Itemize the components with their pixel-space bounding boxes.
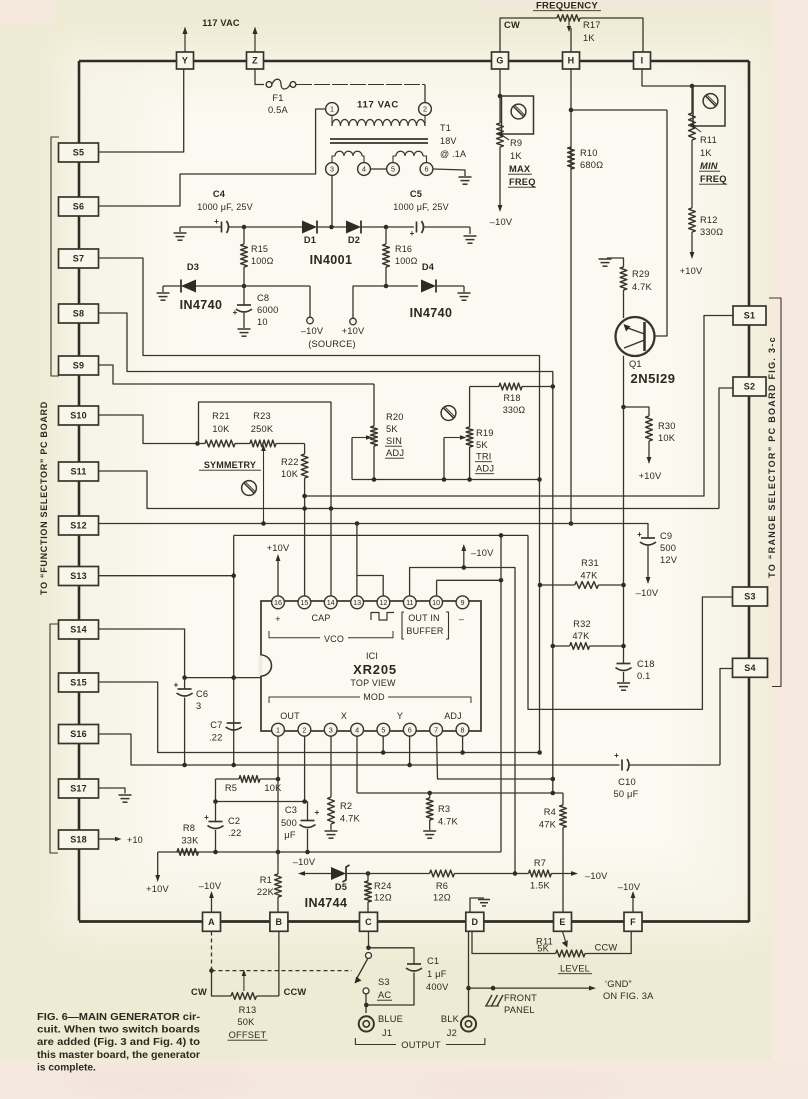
svg-text:R24: R24 bbox=[374, 881, 392, 891]
svg-text:C4: C4 bbox=[213, 189, 226, 199]
svg-text:BUFFER: BUFFER bbox=[406, 626, 444, 636]
svg-text:this master board, the generat: this master board, the generator bbox=[37, 1050, 200, 1061]
svg-text:R22: R22 bbox=[281, 457, 299, 467]
svg-text:B: B bbox=[276, 917, 283, 927]
svg-text:S9: S9 bbox=[73, 361, 84, 371]
svg-text:4.7K: 4.7K bbox=[632, 282, 653, 292]
svg-text:@ .1A: @ .1A bbox=[440, 149, 466, 159]
svg-text:S17: S17 bbox=[70, 784, 87, 794]
svg-text:12: 12 bbox=[379, 598, 387, 607]
svg-text:10K: 10K bbox=[212, 424, 230, 434]
svg-text:D3: D3 bbox=[187, 262, 199, 272]
svg-text:+10V: +10V bbox=[342, 326, 365, 336]
svg-text:OUT IN: OUT IN bbox=[408, 613, 440, 623]
svg-text:–: – bbox=[459, 614, 464, 624]
svg-text:OFFSET: OFFSET bbox=[229, 1030, 267, 1040]
svg-text:D2: D2 bbox=[348, 235, 360, 245]
svg-text:330Ω: 330Ω bbox=[503, 405, 526, 415]
svg-text:PANEL: PANEL bbox=[504, 1005, 535, 1015]
svg-text:R9: R9 bbox=[510, 138, 522, 148]
svg-text:+: + bbox=[275, 614, 280, 624]
svg-text:FIG. 6—MAIN GENERATOR cir-: FIG. 6—MAIN GENERATOR cir- bbox=[37, 1012, 200, 1023]
svg-text:4: 4 bbox=[355, 725, 359, 734]
svg-text:R3: R3 bbox=[438, 804, 450, 814]
svg-text:5K: 5K bbox=[537, 944, 549, 954]
svg-text:1000 μF, 25V: 1000 μF, 25V bbox=[393, 202, 449, 212]
svg-text:Y: Y bbox=[182, 56, 188, 66]
svg-text:50 μF: 50 μF bbox=[614, 789, 639, 799]
svg-text:12Ω: 12Ω bbox=[374, 893, 392, 903]
svg-text:+: + bbox=[174, 681, 179, 690]
svg-text:S1: S1 bbox=[744, 311, 755, 321]
svg-text:1: 1 bbox=[330, 105, 334, 114]
svg-text:1K: 1K bbox=[510, 151, 522, 161]
svg-text:S14: S14 bbox=[70, 625, 87, 635]
svg-text:.22: .22 bbox=[228, 828, 242, 838]
svg-text:C3: C3 bbox=[285, 805, 297, 815]
svg-text:4: 4 bbox=[362, 165, 366, 174]
svg-text:R5: R5 bbox=[225, 783, 237, 793]
svg-text:10: 10 bbox=[257, 317, 268, 327]
svg-text:T1: T1 bbox=[440, 123, 451, 133]
svg-text:12V: 12V bbox=[660, 555, 678, 565]
svg-text:4.7K: 4.7K bbox=[340, 814, 361, 824]
svg-text:R1: R1 bbox=[260, 875, 272, 885]
svg-text:+10V: +10V bbox=[146, 884, 169, 894]
svg-text:11: 11 bbox=[406, 598, 413, 607]
svg-text:MAX: MAX bbox=[509, 164, 531, 174]
svg-text:10K: 10K bbox=[658, 433, 676, 443]
svg-text:C6: C6 bbox=[196, 689, 208, 699]
svg-text:TRI: TRI bbox=[476, 452, 492, 462]
svg-text:BLK: BLK bbox=[441, 1014, 460, 1024]
svg-text:+: + bbox=[637, 530, 642, 539]
svg-text:10K: 10K bbox=[264, 783, 282, 793]
svg-text:.22: .22 bbox=[209, 733, 223, 743]
svg-text:R31: R31 bbox=[581, 558, 599, 568]
svg-text:47K: 47K bbox=[572, 631, 590, 641]
svg-text:ADJ: ADJ bbox=[476, 464, 494, 474]
svg-text:47K: 47K bbox=[580, 571, 598, 581]
svg-text:Q1: Q1 bbox=[629, 359, 642, 369]
svg-text:R16: R16 bbox=[395, 244, 412, 254]
svg-text:Z: Z bbox=[252, 56, 258, 66]
svg-text:3: 3 bbox=[196, 701, 201, 711]
svg-text:R23: R23 bbox=[253, 411, 271, 421]
svg-text:F: F bbox=[630, 917, 636, 927]
svg-text:S3: S3 bbox=[744, 592, 755, 602]
svg-text:0.5A: 0.5A bbox=[268, 105, 289, 115]
svg-text:TOP VIEW: TOP VIEW bbox=[350, 678, 396, 688]
svg-text:FRONT: FRONT bbox=[504, 993, 537, 1003]
svg-text:ON FIG. 3A: ON FIG. 3A bbox=[603, 991, 654, 1001]
svg-text:100Ω: 100Ω bbox=[251, 256, 274, 266]
svg-text:–10V: –10V bbox=[636, 588, 659, 598]
svg-text:LEVEL: LEVEL bbox=[560, 964, 590, 974]
svg-text:X: X bbox=[341, 711, 347, 721]
svg-text:+: + bbox=[214, 217, 219, 226]
svg-text:R32: R32 bbox=[573, 619, 591, 629]
svg-text:8: 8 bbox=[461, 725, 465, 734]
svg-text:R4: R4 bbox=[544, 807, 556, 817]
svg-text:22K: 22K bbox=[257, 887, 275, 897]
svg-text:R17: R17 bbox=[583, 20, 601, 30]
svg-text:SIN: SIN bbox=[386, 436, 402, 446]
svg-text:S5: S5 bbox=[73, 148, 84, 158]
svg-text:+10: +10 bbox=[127, 835, 143, 845]
svg-text:ADJ: ADJ bbox=[386, 448, 404, 458]
svg-text:5K: 5K bbox=[386, 424, 398, 434]
svg-text:117 VAC: 117 VAC bbox=[202, 18, 240, 28]
svg-text:E: E bbox=[559, 917, 565, 927]
svg-text:S8: S8 bbox=[73, 309, 84, 319]
svg-text:R29: R29 bbox=[632, 269, 650, 279]
svg-text:C7: C7 bbox=[210, 720, 222, 730]
svg-text:9: 9 bbox=[461, 598, 465, 607]
svg-text:R13: R13 bbox=[239, 1005, 257, 1015]
svg-text:–10V: –10V bbox=[618, 882, 641, 892]
svg-text:CW: CW bbox=[504, 20, 520, 30]
svg-text:MOD: MOD bbox=[363, 692, 385, 702]
svg-text:400V: 400V bbox=[426, 982, 449, 992]
svg-text:2: 2 bbox=[302, 725, 306, 734]
svg-text:μF: μF bbox=[284, 830, 296, 840]
svg-text:CW: CW bbox=[191, 987, 207, 997]
svg-text:R18: R18 bbox=[503, 393, 520, 403]
svg-text:S10: S10 bbox=[70, 411, 87, 421]
svg-text:H: H bbox=[568, 56, 575, 66]
svg-text:‘GND”: ‘GND” bbox=[605, 979, 632, 989]
svg-text:3: 3 bbox=[329, 725, 333, 734]
svg-text:500: 500 bbox=[660, 543, 676, 553]
svg-text:S2: S2 bbox=[744, 382, 755, 392]
svg-text:CAP: CAP bbox=[311, 613, 330, 623]
svg-text:I: I bbox=[641, 56, 644, 66]
svg-text:S13: S13 bbox=[70, 571, 87, 581]
svg-text:S12: S12 bbox=[70, 521, 87, 531]
svg-text:OUTPUT: OUTPUT bbox=[401, 1040, 441, 1050]
svg-text:10K: 10K bbox=[281, 469, 299, 479]
svg-text:CCW: CCW bbox=[284, 987, 307, 997]
svg-text:S4: S4 bbox=[744, 663, 755, 673]
svg-text:FREQ: FREQ bbox=[509, 177, 536, 187]
svg-text:33K: 33K bbox=[181, 836, 199, 846]
svg-text:5: 5 bbox=[381, 725, 385, 734]
svg-text:IN4744: IN4744 bbox=[305, 896, 348, 910]
svg-text:S11: S11 bbox=[70, 467, 86, 477]
svg-text:R7: R7 bbox=[534, 858, 546, 868]
svg-text:D1: D1 bbox=[304, 235, 316, 245]
svg-text:BLUE: BLUE bbox=[378, 1014, 403, 1024]
svg-text:18V: 18V bbox=[440, 136, 457, 146]
svg-text:are added (Fig. 3 and Fig. 4): are added (Fig. 3 and Fig. 4) to bbox=[37, 1037, 200, 1048]
svg-text:+10V: +10V bbox=[267, 543, 290, 553]
svg-text:is complete.: is complete. bbox=[37, 1062, 96, 1073]
svg-text:D: D bbox=[471, 917, 478, 927]
svg-text:+: + bbox=[233, 308, 238, 317]
svg-text:14: 14 bbox=[327, 598, 335, 607]
svg-text:ICI: ICI bbox=[366, 651, 378, 661]
svg-text:SYMMETRY: SYMMETRY bbox=[204, 460, 256, 470]
svg-text:–10V: –10V bbox=[490, 217, 513, 227]
svg-text:FREQ: FREQ bbox=[700, 174, 727, 184]
svg-text:S15: S15 bbox=[70, 678, 87, 688]
svg-text:S18: S18 bbox=[70, 835, 87, 845]
svg-text:S7: S7 bbox=[73, 254, 84, 264]
svg-text:IN4740: IN4740 bbox=[180, 298, 223, 312]
svg-text:D5: D5 bbox=[335, 882, 347, 892]
svg-text:–10V: –10V bbox=[585, 871, 608, 881]
svg-text:R10: R10 bbox=[580, 148, 598, 158]
svg-text:AC: AC bbox=[378, 990, 391, 1000]
svg-text:10: 10 bbox=[432, 598, 440, 607]
svg-text:R2: R2 bbox=[340, 801, 352, 811]
svg-text:+10V: +10V bbox=[639, 471, 662, 481]
svg-text:XR205: XR205 bbox=[353, 662, 397, 677]
svg-text:15: 15 bbox=[300, 598, 308, 607]
svg-text:cuit. When two switch boards: cuit. When two switch boards bbox=[37, 1025, 200, 1036]
svg-text:C2: C2 bbox=[228, 816, 240, 826]
svg-text:+: + bbox=[204, 813, 209, 822]
svg-text:+: + bbox=[410, 229, 415, 238]
svg-text:OUT: OUT bbox=[280, 711, 300, 721]
svg-text:13: 13 bbox=[353, 598, 361, 607]
svg-text:2N5I29: 2N5I29 bbox=[631, 371, 676, 386]
svg-text:VCO: VCO bbox=[324, 634, 344, 644]
svg-text:C9: C9 bbox=[660, 531, 672, 541]
svg-text:1 μF: 1 μF bbox=[427, 969, 447, 979]
svg-text:+: + bbox=[315, 808, 320, 817]
svg-text:4.7K: 4.7K bbox=[438, 817, 459, 827]
svg-text:R6: R6 bbox=[436, 881, 448, 891]
svg-text:C18: C18 bbox=[637, 659, 655, 669]
svg-text:7: 7 bbox=[434, 725, 438, 734]
svg-text:R15: R15 bbox=[251, 244, 268, 254]
svg-text:CCW: CCW bbox=[595, 943, 618, 953]
svg-text:–10V: –10V bbox=[293, 857, 316, 867]
svg-text:1.5K: 1.5K bbox=[530, 881, 551, 891]
svg-text:117 VAC: 117 VAC bbox=[357, 100, 399, 111]
svg-text:A: A bbox=[208, 917, 215, 927]
svg-text:R21: R21 bbox=[212, 411, 230, 421]
svg-text:16: 16 bbox=[274, 598, 282, 607]
svg-text:50K: 50K bbox=[237, 1017, 255, 1027]
svg-text:C1: C1 bbox=[427, 956, 439, 966]
svg-text:G: G bbox=[496, 56, 503, 66]
svg-text:R12: R12 bbox=[700, 215, 718, 225]
svg-text:C: C bbox=[365, 917, 372, 927]
svg-text:C10: C10 bbox=[618, 777, 636, 787]
svg-text:R11: R11 bbox=[700, 135, 717, 145]
svg-text:6: 6 bbox=[425, 165, 429, 174]
svg-text:S16: S16 bbox=[70, 729, 87, 739]
svg-text:IN4001: IN4001 bbox=[310, 253, 353, 267]
svg-text:1: 1 bbox=[276, 725, 280, 734]
svg-text:–10V: –10V bbox=[301, 326, 324, 336]
svg-text:S6: S6 bbox=[73, 202, 84, 212]
svg-text:330Ω: 330Ω bbox=[700, 227, 723, 237]
svg-text:R19: R19 bbox=[476, 428, 494, 438]
svg-text:J2: J2 bbox=[447, 1028, 457, 1038]
svg-text:R20: R20 bbox=[386, 412, 404, 422]
svg-text:5K: 5K bbox=[476, 440, 488, 450]
svg-text:5: 5 bbox=[391, 165, 395, 174]
svg-text:IN4740: IN4740 bbox=[410, 306, 453, 320]
svg-text:Y: Y bbox=[397, 711, 403, 721]
svg-text:TO “FUNCTION SELECTOR” PC BOAR: TO “FUNCTION SELECTOR” PC BOARD bbox=[39, 401, 49, 595]
svg-text:500: 500 bbox=[281, 818, 297, 828]
svg-text:ADJ: ADJ bbox=[444, 711, 462, 721]
svg-text:(SOURCE): (SOURCE) bbox=[308, 339, 356, 349]
svg-text:+: + bbox=[614, 751, 619, 760]
svg-text:1K: 1K bbox=[700, 148, 712, 158]
svg-text:C8: C8 bbox=[257, 293, 269, 303]
svg-text:680Ω: 680Ω bbox=[580, 160, 603, 170]
svg-text:6: 6 bbox=[408, 725, 412, 734]
svg-text:TO “RANGE SELECTOR” PC BOARD F: TO “RANGE SELECTOR” PC BOARD FIG. 3-c bbox=[767, 336, 777, 578]
svg-text:3: 3 bbox=[330, 165, 334, 174]
svg-text:D4: D4 bbox=[422, 262, 435, 272]
svg-text:R8: R8 bbox=[183, 823, 195, 833]
svg-text:1K: 1K bbox=[583, 33, 595, 43]
svg-text:J1: J1 bbox=[382, 1028, 392, 1038]
svg-text:1000 μF, 25V: 1000 μF, 25V bbox=[197, 202, 253, 212]
svg-text:+10V: +10V bbox=[680, 266, 703, 276]
svg-text:–10V: –10V bbox=[199, 881, 222, 891]
svg-text:0.1: 0.1 bbox=[637, 671, 651, 681]
svg-text:C5: C5 bbox=[410, 189, 422, 199]
svg-text:100Ω: 100Ω bbox=[395, 256, 418, 266]
svg-text:250K: 250K bbox=[251, 424, 274, 434]
svg-text:12Ω: 12Ω bbox=[433, 893, 451, 903]
svg-text:–10V: –10V bbox=[471, 548, 494, 558]
svg-text:S3: S3 bbox=[378, 977, 390, 987]
svg-text:47K: 47K bbox=[539, 820, 557, 830]
svg-text:2: 2 bbox=[423, 105, 427, 114]
svg-text:F1: F1 bbox=[272, 93, 283, 103]
svg-text:FREQUENCY: FREQUENCY bbox=[536, 1, 598, 12]
svg-text:R30: R30 bbox=[658, 421, 676, 431]
svg-text:MIN: MIN bbox=[700, 161, 718, 171]
svg-text:6000: 6000 bbox=[257, 305, 278, 315]
